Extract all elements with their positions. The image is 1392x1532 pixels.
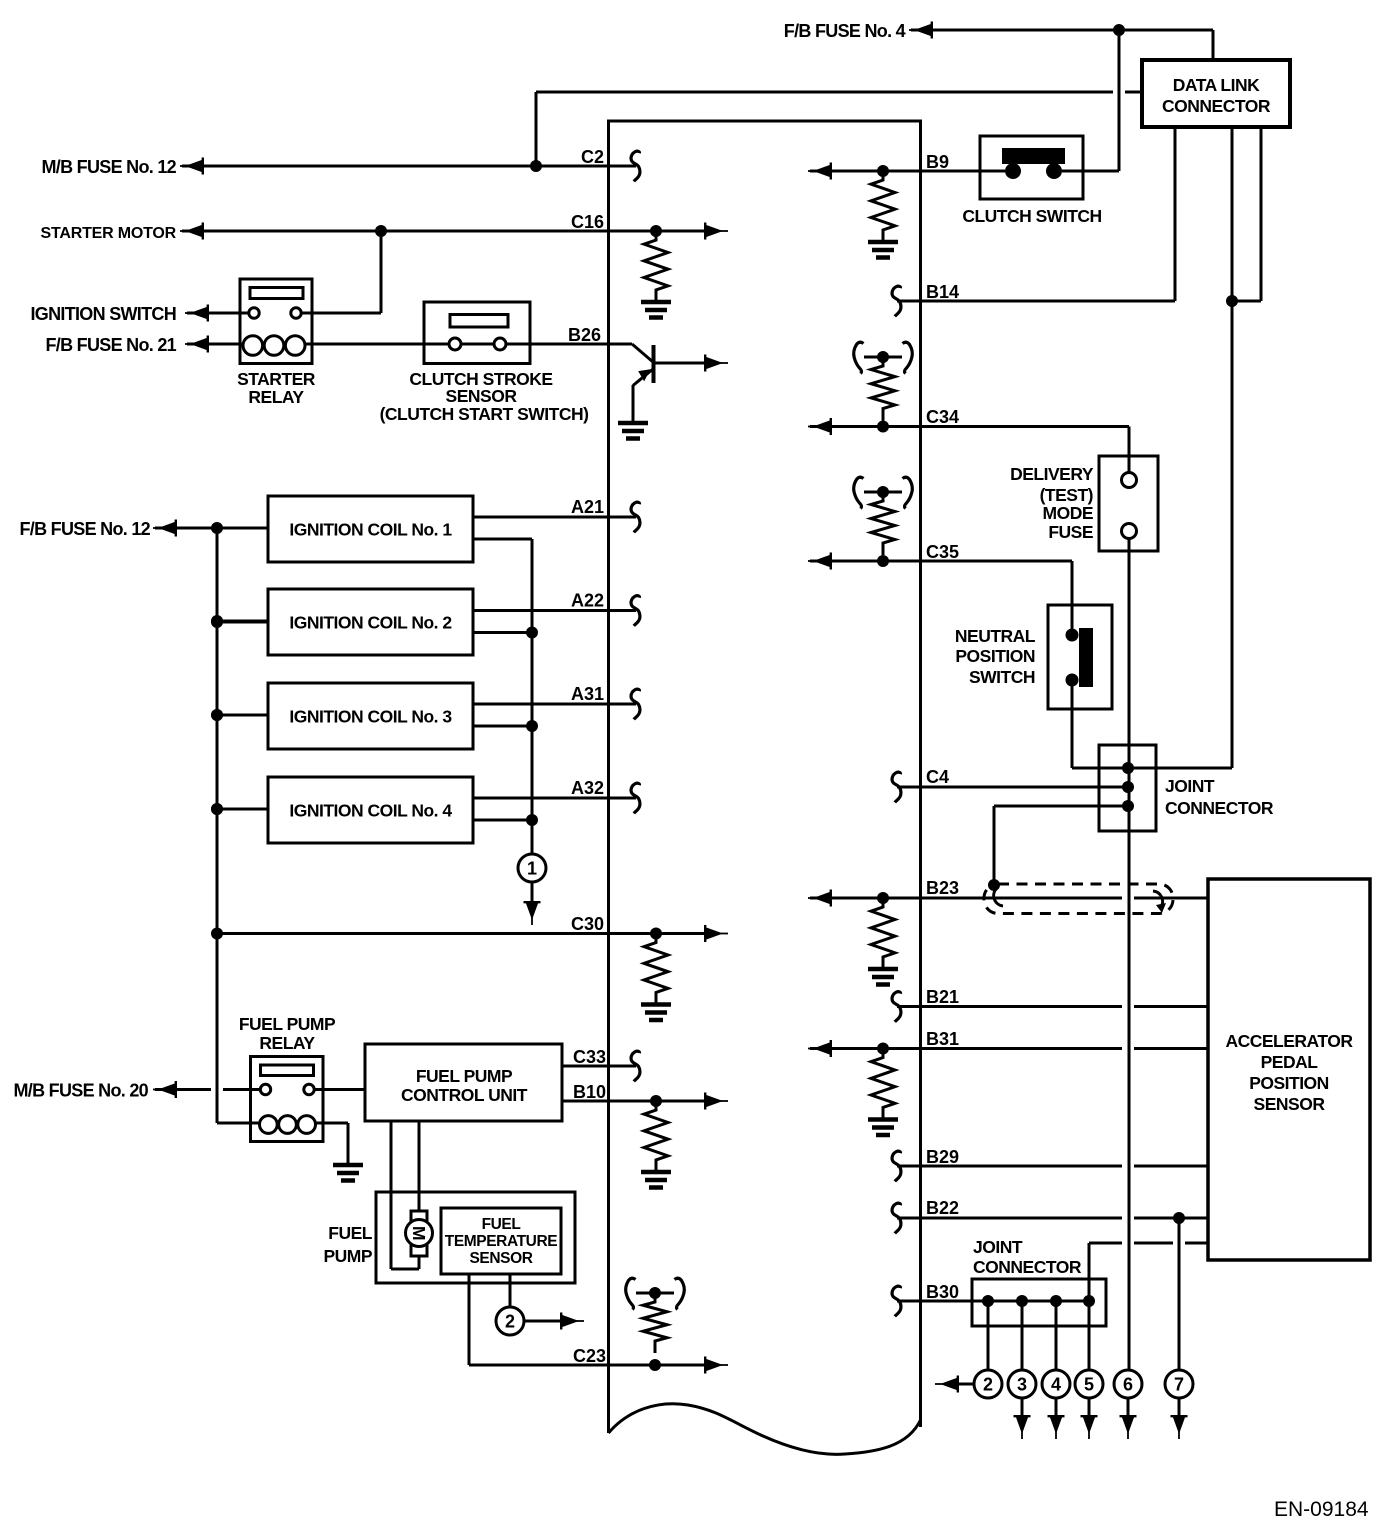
svg-text:F/B FUSE No. 4: F/B FUSE No. 4 [784,21,906,41]
svg-text:FUEL PUMP: FUEL PUMP [416,1066,513,1086]
svg-text:JOINT: JOINT [1165,776,1215,796]
svg-text:4: 4 [1051,1375,1061,1395]
svg-text:M: M [409,1226,429,1240]
svg-text:C34: C34 [926,407,959,427]
svg-text:7: 7 [1174,1375,1184,1395]
svg-text:DELIVERY: DELIVERY [1010,464,1094,484]
svg-text:B26: B26 [568,325,601,345]
svg-text:MODE: MODE [1043,503,1094,523]
svg-text:A31: A31 [571,684,604,704]
svg-text:F/B FUSE No. 12: F/B FUSE No. 12 [19,519,150,539]
svg-text:C2: C2 [581,147,604,167]
svg-text:(CLUTCH START SWITCH): (CLUTCH START SWITCH) [380,404,589,424]
svg-text:CONTROL UNIT: CONTROL UNIT [401,1085,528,1105]
svg-text:SWITCH: SWITCH [969,667,1035,687]
svg-text:PUMP: PUMP [323,1246,372,1266]
svg-text:IGNITION SWITCH: IGNITION SWITCH [31,304,177,324]
svg-text:JOINT: JOINT [973,1237,1023,1257]
svg-text:2: 2 [983,1375,993,1395]
svg-text:B31: B31 [926,1029,959,1049]
svg-text:RELAY: RELAY [259,1033,315,1053]
svg-text:SENSOR: SENSOR [469,1250,532,1267]
svg-text:A32: A32 [571,778,604,798]
svg-text:2: 2 [505,1312,515,1332]
svg-text:(TEST): (TEST) [1040,485,1093,505]
svg-text:C16: C16 [571,212,604,232]
svg-text:B10: B10 [573,1082,606,1102]
svg-text:C35: C35 [926,542,959,562]
svg-text:B30: B30 [926,1282,959,1302]
svg-text:C23: C23 [573,1346,606,1366]
svg-text:CONNECTOR: CONNECTOR [973,1257,1082,1277]
svg-text:B14: B14 [926,282,959,302]
svg-text:A22: A22 [571,591,604,611]
svg-text:DATA LINK: DATA LINK [1173,75,1260,95]
svg-text:IGNITION COIL No. 3: IGNITION COIL No. 3 [289,707,452,727]
svg-text:M/B FUSE No. 12: M/B FUSE No. 12 [41,157,176,177]
svg-text:1: 1 [527,859,537,879]
svg-text:C30: C30 [571,914,604,934]
svg-text:5: 5 [1084,1375,1094,1395]
svg-text:B29: B29 [926,1147,959,1167]
svg-text:CONNECTOR: CONNECTOR [1162,96,1271,116]
svg-text:B22: B22 [926,1198,959,1218]
svg-text:RELAY: RELAY [248,387,304,407]
svg-text:PEDAL: PEDAL [1261,1052,1319,1072]
svg-text:CLUTCH SWITCH: CLUTCH SWITCH [962,206,1101,226]
svg-text:FUEL: FUEL [328,1223,373,1243]
svg-text:EN-09184: EN-09184 [1274,1498,1369,1521]
svg-text:POSITION: POSITION [1249,1073,1329,1093]
svg-text:IGNITION COIL No. 4: IGNITION COIL No. 4 [289,801,452,821]
svg-text:FUSE: FUSE [1048,522,1093,542]
svg-text:STARTER: STARTER [237,369,316,389]
svg-text:A21: A21 [571,497,604,517]
svg-text:6: 6 [1123,1375,1133,1395]
svg-text:SENSOR: SENSOR [1254,1094,1326,1114]
svg-text:TEMPERATURE: TEMPERATURE [445,1233,557,1250]
svg-text:C33: C33 [573,1047,606,1067]
svg-text:B21: B21 [926,987,959,1007]
svg-text:3: 3 [1017,1375,1027,1395]
svg-text:C4: C4 [926,767,949,787]
svg-text:F/B FUSE No. 21: F/B FUSE No. 21 [45,335,176,355]
svg-text:M/B FUSE No. 20: M/B FUSE No. 20 [13,1081,148,1101]
svg-text:IGNITION COIL No. 1: IGNITION COIL No. 1 [289,520,452,540]
svg-text:FUEL: FUEL [482,1216,521,1233]
svg-text:FUEL PUMP: FUEL PUMP [239,1014,336,1034]
svg-text:CONNECTOR: CONNECTOR [1165,798,1274,818]
svg-text:B23: B23 [926,878,959,898]
svg-text:ACCELERATOR: ACCELERATOR [1225,1031,1353,1051]
svg-text:NEUTRAL: NEUTRAL [955,626,1036,646]
svg-text:B9: B9 [926,152,949,172]
svg-text:SENSOR: SENSOR [446,386,518,406]
svg-text:POSITION: POSITION [955,646,1035,666]
svg-text:IGNITION COIL No. 2: IGNITION COIL No. 2 [289,613,452,633]
svg-text:STARTER MOTOR: STARTER MOTOR [41,225,177,242]
